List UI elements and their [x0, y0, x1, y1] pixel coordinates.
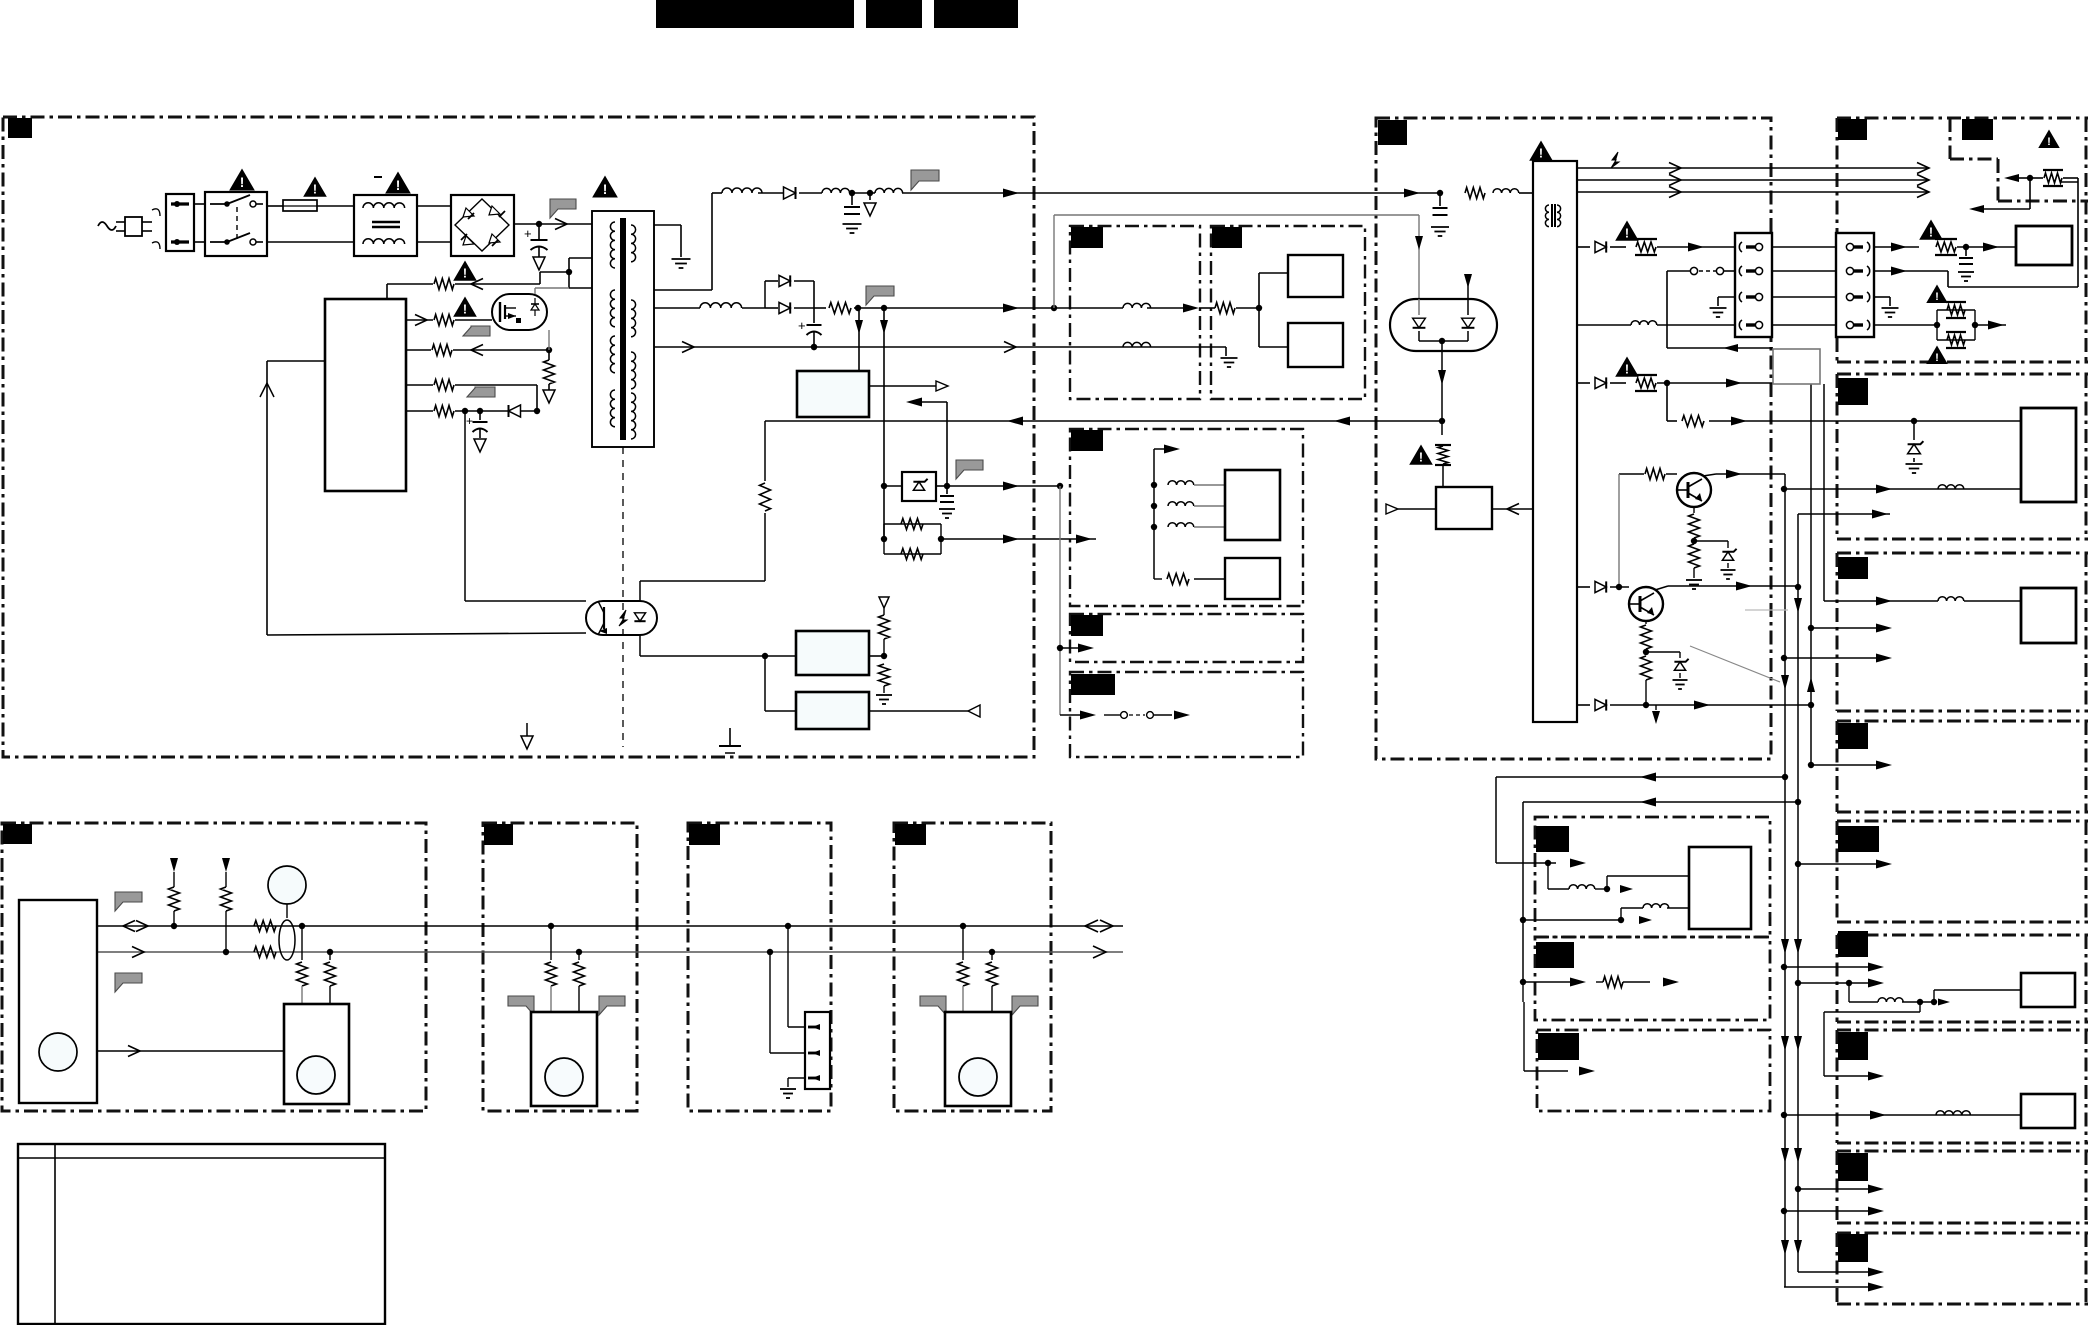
- arrow D501 down: [1438, 370, 1446, 385]
- W3 pin3: [808, 1077, 818, 1080]
- coil L606: [1123, 303, 1151, 308]
- transformer primary winding 3: [610, 336, 615, 373]
- shutdown box IC603: [796, 631, 869, 675]
- opto coupler PC601: [586, 601, 657, 635]
- wire fuse to filter: [317, 205, 354, 207]
- wire secondary 9V: [654, 307, 700, 309]
- wire +B: [850, 192, 875, 194]
- wire into F box: [1933, 990, 1935, 1002]
- resistor R605: [814, 307, 826, 309]
- wire +9V to right: [930, 307, 1123, 309]
- block W2 label (redacted): [484, 824, 513, 845]
- transformer secondary winding 1: [631, 225, 636, 262]
- svg-text:!: !: [1935, 291, 1939, 303]
- title bar small 1 (redacted): [866, 0, 922, 28]
- diode D572: [1595, 377, 1606, 388]
- wire y705 line: [1577, 704, 1590, 706]
- grey flag W2a: [508, 996, 534, 1015]
- error detect box: [1436, 487, 1492, 529]
- ground (cap C605): [533, 257, 545, 270]
- junction R618 right: [938, 536, 944, 542]
- ground (C617): [939, 508, 955, 510]
- block A label (redacted): [1838, 119, 1867, 140]
- junction row3: [546, 347, 552, 353]
- arrow AFC: [1969, 205, 1984, 213]
- junction zener line: [881, 483, 887, 489]
- junction B+ into block B: [1911, 418, 1917, 424]
- audio IC box 1: [1288, 255, 1343, 297]
- coil L605: [700, 303, 742, 308]
- bus chevrons left: [1669, 163, 1681, 174]
- ground (D576): [1906, 463, 1923, 465]
- grey flag W1b: [115, 973, 142, 992]
- sub-block label (redacted): [1071, 430, 1103, 451]
- sub-block border audio out: [1211, 226, 1365, 399]
- ground (secondary top): [672, 258, 691, 260]
- bus line 1: [97, 925, 1123, 927]
- sub-block label (redacted): [1071, 674, 1115, 695]
- IC pin row3 wire: [406, 349, 431, 351]
- parallel fusible resistors: [1936, 310, 1938, 340]
- open arrow row1: [471, 279, 483, 290]
- wire switch to fuse: [267, 205, 283, 207]
- resistor R616: [434, 380, 454, 391]
- feedback wire 2: [1523, 801, 1798, 803]
- stub arrow down: [1655, 705, 1657, 710]
- junction row5b: [534, 408, 540, 414]
- rail arrows set5: [1781, 1148, 1789, 1163]
- latch box IC604: [796, 692, 869, 729]
- warning triangle (switch): [230, 170, 253, 190]
- wire block D arrow: [1811, 764, 1878, 766]
- bus line 2: [97, 951, 1123, 953]
- warning triangle pair top: [1928, 286, 1947, 302]
- warning triangle y383: [1617, 358, 1638, 376]
- feed arrow down to zener line: [883, 308, 885, 486]
- zener D613 box: [902, 472, 936, 501]
- junction dots row5: [462, 408, 468, 414]
- cap C611: [851, 193, 853, 205]
- block I label (redacted): [1838, 1234, 1868, 1262]
- wire block I arrow 1: [1797, 1271, 1799, 1272]
- sub5 switch contacts: [1121, 712, 1128, 719]
- IC pin row5 wire: [406, 410, 433, 412]
- sub-block border B+ filter: [1070, 226, 1200, 399]
- P inner wire 2: [1523, 919, 1621, 921]
- title bar (redacted): [656, 0, 854, 28]
- +B rectifier D611: [758, 192, 783, 194]
- pull-up resistor 1: [170, 858, 178, 872]
- boxed resistor R574: [1610, 382, 1626, 384]
- CN571 pin1: [1739, 242, 1742, 252]
- resistor R617: [434, 406, 454, 417]
- wire bridge output: [514, 223, 592, 225]
- warning triangle pair bottom: [1928, 347, 1947, 363]
- motor box W1: [284, 1004, 349, 1104]
- wire F mute loop: [1848, 983, 1850, 1002]
- D501 right diode: [1462, 318, 1475, 328]
- grey flag W4a: [920, 996, 946, 1015]
- svg-text:+: +: [524, 226, 532, 241]
- W4 resistors: [960, 923, 966, 929]
- wire secondary top to ground: [654, 224, 681, 226]
- bus end arrows: [1085, 920, 1098, 932]
- CN572 pin4: [1846, 321, 1853, 328]
- wire block I arrow 2: [1784, 1286, 1870, 1288]
- MOSFET opto oval Q601: [492, 294, 547, 330]
- svg-text:!: !: [463, 267, 467, 281]
- motor box W4: [945, 1012, 1011, 1106]
- drop resistor 2: [329, 952, 331, 960]
- bridge diamond: [455, 199, 509, 251]
- IC602 in arrow: [906, 398, 922, 407]
- coil L603: [875, 188, 903, 193]
- block W3 border (sensor): [688, 823, 831, 1111]
- coil L576: [1938, 485, 1964, 489]
- ground (D577): [1721, 569, 1736, 571]
- block Q wire: [1523, 981, 1570, 983]
- ground (CN571 pin3): [1710, 307, 1727, 309]
- zener D576: [1913, 421, 1915, 440]
- wire block H arrow 2: [1784, 1210, 1870, 1212]
- wire zener line right: [947, 485, 1060, 487]
- video box: [2016, 226, 2072, 265]
- coil L607: [1123, 342, 1151, 347]
- AC source symbol: [98, 222, 116, 230]
- leader line: [1690, 646, 1780, 682]
- Q571 collector wire: [1703, 474, 1716, 476]
- P inner wire 1: [1547, 863, 1549, 889]
- sub3 coil 2: [1151, 503, 1157, 509]
- svg-text:!: !: [2047, 136, 2051, 148]
- zener D578: [1646, 651, 1680, 653]
- sub3 coil 3: [1151, 524, 1157, 530]
- resistor R613: [434, 315, 454, 326]
- junction +B at regulator: [1437, 190, 1443, 196]
- CN572 pin2: [1846, 267, 1853, 274]
- sub3 coil 1: [1151, 482, 1157, 488]
- grey flag W4b: [1012, 996, 1038, 1015]
- block R border: [1537, 1030, 1770, 1111]
- resistor R576: [1666, 383, 1668, 421]
- boxed resistor R533: [1441, 421, 1443, 435]
- wire block G main: [1784, 1114, 2021, 1116]
- block D label (redacted): [1838, 723, 1868, 749]
- IC pin row2 wire: [415, 315, 427, 326]
- sub-block label (redacted): [1212, 227, 1242, 248]
- wire to block B video in: [1784, 488, 2021, 490]
- CN572 pin1: [1846, 243, 1853, 250]
- W1 circle: [39, 1033, 77, 1071]
- W2 resistors: [548, 923, 554, 929]
- wire block G arrow: [1919, 1002, 1921, 1012]
- inlet pin 1: [171, 202, 189, 205]
- block W1 border (main motor): [2, 823, 426, 1111]
- feedback line to error amp: [765, 420, 1442, 422]
- Q572 collector wire: [1655, 586, 1668, 590]
- title bar small 2 (redacted): [934, 0, 1018, 28]
- service switch: [1667, 270, 1690, 272]
- block P converter box: [1689, 847, 1751, 929]
- connector W3: [805, 1012, 830, 1089]
- grey flag (+B out): [911, 170, 939, 190]
- controller box W1: [19, 900, 97, 1103]
- svg-text:+: +: [466, 414, 473, 428]
- wire +B to right: [902, 192, 1440, 194]
- resistor R571: [1465, 188, 1485, 199]
- transformer secondary winding 2: [631, 300, 636, 337]
- inlet pin 2: [171, 240, 189, 243]
- block A corner resistor: [2044, 173, 2062, 183]
- wire deflection drive: [1824, 600, 1938, 602]
- block label (redacted) regulator: [1378, 120, 1407, 145]
- W3 pin1: [808, 1026, 818, 1029]
- coil L583: [1936, 1111, 1970, 1115]
- sub3 main box: [1225, 470, 1280, 540]
- opto phototransistor: [603, 607, 605, 629]
- vertical rail 3 (yoke 1): [1810, 384, 1812, 765]
- W3 pin3 ground wire: [788, 1077, 805, 1079]
- bus chevrons right: [1917, 163, 1929, 174]
- block F label (redacted): [1838, 931, 1868, 957]
- connector CN571: [1735, 233, 1772, 337]
- thermistor circle: [268, 866, 306, 904]
- block H label (redacted): [1838, 1153, 1868, 1181]
- notes table: [18, 1144, 385, 1324]
- wire corner arrow: [2004, 174, 2019, 182]
- cap C571: [1439, 193, 1441, 206]
- page ground left block: [526, 723, 528, 736]
- cap C606 polarized: [813, 308, 815, 323]
- Q572 emitter chain: [1645, 620, 1647, 624]
- rectifier D605b: [779, 302, 790, 313]
- wire block F arrow 1: [1784, 966, 1870, 968]
- transformer T603 outline: [592, 211, 654, 447]
- wire Q572 base: [1577, 586, 1590, 588]
- block I border: [1837, 1232, 2088, 1235]
- PC coil L601: [722, 188, 762, 193]
- wire y383 into yoke connector: [1772, 382, 1774, 384]
- svg-text:!: !: [463, 303, 467, 317]
- coil L577: [1938, 597, 1964, 601]
- diode D573: [1595, 581, 1606, 592]
- wire CN572 pin2 out: [1874, 270, 1948, 272]
- IC604 output: [869, 710, 968, 712]
- block R label (redacted): [1538, 1033, 1579, 1060]
- switch contact 1: [210, 203, 227, 205]
- transformer primary winding 2: [610, 290, 615, 327]
- wire switch to filter (lower): [267, 241, 354, 243]
- svg-text:!: !: [1625, 363, 1629, 377]
- deflection box C: [2021, 588, 2076, 643]
- small grey connector box: [1773, 349, 1820, 384]
- warning triangle (transformer): [593, 177, 616, 197]
- page ground (R615): [543, 390, 555, 403]
- diode D571: [1595, 241, 1606, 252]
- wire pin3 ground: [1718, 296, 1735, 298]
- wire block E arrow: [1798, 863, 1878, 865]
- resistor R615 to ground: [544, 360, 555, 384]
- grey flag W1a: [115, 892, 142, 911]
- zener D577: [1694, 540, 1728, 542]
- feedback wire loop: [267, 360, 325, 362]
- rail arrows set6: [1781, 1240, 1789, 1255]
- audio out box F: [2021, 973, 2075, 1007]
- line filter windings: [363, 203, 405, 208]
- bracket to audio ICs: [1258, 273, 1260, 347]
- speaker box G: [2021, 1094, 2075, 1128]
- block A: top-right border with notch: [1837, 117, 2088, 120]
- sub5 arrow: [1174, 711, 1190, 720]
- bridge rectifier D601 box: [451, 195, 514, 256]
- block: secondary regulator border: [1376, 118, 1771, 759]
- wire plug hooks: [152, 209, 160, 249]
- arrow into error box: [1386, 504, 1398, 514]
- sub-block label (redacted): [1071, 227, 1103, 248]
- wire row5 to opto: [464, 411, 466, 601]
- bus arrows W1: [123, 921, 135, 932]
- sub5 switch wire: [1060, 714, 1082, 716]
- block Q border: [1535, 937, 1770, 1020]
- grey flag (B+ raw): [550, 199, 576, 218]
- CN571 pin3: [1739, 292, 1742, 302]
- grey wire +9V to opto D501: [1053, 215, 1055, 308]
- bridge diode 3: [463, 236, 474, 245]
- Q571 emitter chain: [1693, 507, 1695, 513]
- wire 16V line: [654, 346, 1226, 348]
- IC pin row4 wire: [406, 384, 433, 386]
- W3 pin2: [808, 1052, 818, 1055]
- block W1 label (redacted): [3, 824, 32, 844]
- sub3 feed arrow: [1153, 449, 1155, 579]
- wire R618 line right: [941, 538, 1096, 540]
- block B border: [1837, 373, 2088, 376]
- CN571 pin4: [1739, 320, 1742, 330]
- three-wire bus top: [1577, 167, 1927, 169]
- CN571 pin2: [1739, 266, 1742, 276]
- right edge borders: [2085, 118, 2088, 362]
- power switch S601 box: [205, 192, 267, 256]
- block R wire: [1522, 982, 1524, 1002]
- warning triangle row2: [455, 298, 476, 316]
- block Q label (redacted): [1536, 942, 1574, 968]
- coil L602: [822, 188, 850, 193]
- block G label (redacted): [1838, 1032, 1868, 1060]
- transformer symbol in box: [1545, 205, 1549, 227]
- warning triangle block A corner: [2040, 131, 2059, 147]
- regulator/connector tall box: [1533, 161, 1577, 722]
- warning triangle R533: [1411, 446, 1432, 464]
- W3 wires: [785, 923, 791, 929]
- wire CN572 pin3 ground: [1874, 296, 1890, 298]
- audio IC box 2: [1288, 323, 1343, 367]
- coil L571: [1493, 189, 1519, 193]
- fuse F601: [283, 200, 317, 211]
- bridge diode 1: [463, 208, 474, 217]
- dual diode opto D501 oval: [1390, 299, 1497, 351]
- transformer primary winding 1: [610, 222, 615, 268]
- svg-text:!: !: [1929, 226, 1933, 240]
- opto LED anode wire: [639, 581, 641, 601]
- resistor R614: [432, 345, 452, 356]
- resistor R620 vertical: [764, 421, 766, 481]
- svg-text:!: !: [1935, 352, 1939, 364]
- block E label (redacted): [1838, 826, 1879, 852]
- block P label (redacted): [1536, 826, 1569, 852]
- junction + arrow heater: [1972, 322, 1978, 328]
- boxed resistor R572: [1610, 246, 1626, 248]
- grey flag (+9V): [866, 286, 894, 305]
- transformer secondary winding 4: [631, 393, 636, 439]
- rail arrows set2: [1781, 675, 1789, 690]
- drop resistor 1: [301, 926, 303, 960]
- vertical rail 4 (yoke 2): [1823, 384, 1825, 601]
- sub-block border heater: [1070, 614, 1303, 662]
- ground (CN572 pin3): [1882, 307, 1899, 309]
- sub-block border degauss: [1070, 672, 1303, 757]
- junction dots +9V: [855, 305, 861, 311]
- boxed resistor R573: [1936, 242, 1956, 252]
- feed arrow down to IC box: [858, 308, 860, 371]
- transformer secondary winding 3: [631, 352, 636, 389]
- diode D612: [509, 405, 521, 417]
- block W4 label (redacted): [895, 824, 926, 845]
- block B label (redacted): [1838, 378, 1868, 405]
- wire pin1 line: [1577, 246, 1590, 248]
- block D border: [1837, 720, 2088, 723]
- cap C617: [946, 486, 948, 494]
- warning triangle (fuse): [305, 178, 326, 196]
- wire block F arrow 2: [1798, 982, 1870, 984]
- block W3 label (redacted): [689, 824, 720, 845]
- block F border: [1837, 934, 2088, 937]
- block W2 border (motor 2): [483, 823, 637, 1111]
- wire block C arrow 1: [1811, 627, 1878, 629]
- block A2 label (redacted): [1962, 119, 1993, 140]
- diode D574: [1595, 699, 1606, 710]
- sub3 resistor: [1154, 578, 1162, 580]
- open arrow into transformer: [555, 219, 567, 230]
- block C border: [1837, 552, 2088, 555]
- wire block C arrow 2: [1784, 657, 1878, 659]
- wire secondary to +B line: [654, 289, 712, 291]
- wire tall box to error box: [1492, 508, 1533, 510]
- wire Q572 node to block B: [1797, 514, 1799, 587]
- wire to transformer pins: [568, 258, 570, 272]
- block C label (redacted): [1838, 557, 1868, 579]
- CRT drive box: [2021, 408, 2076, 502]
- wire switch drop: [1666, 271, 1668, 348]
- resistor R622 top arrow: [879, 597, 889, 608]
- block H border: [1837, 1150, 2088, 1153]
- MOSFET body diode: [531, 304, 539, 310]
- rail arrows set4: [1781, 1036, 1789, 1051]
- arrow +9V into sub-block: [1183, 304, 1199, 313]
- block G border: [1837, 1029, 2088, 1032]
- sub3 small box: [1225, 558, 1280, 599]
- resistor R623: [879, 664, 890, 686]
- opto LED cathode wire: [639, 635, 641, 656]
- opto LED: [634, 613, 645, 621]
- wire switch line to yoke box: [1667, 347, 1773, 349]
- wire block H arrow 1: [1798, 1188, 1870, 1190]
- bridge diode 2: [489, 206, 500, 215]
- sub4 wire arrow: [1059, 486, 1061, 715]
- open arrow row3: [471, 345, 483, 356]
- transistor Q571: [1677, 473, 1711, 507]
- CN572 pin3: [1846, 293, 1853, 300]
- warning triangle A1: [1921, 221, 1942, 239]
